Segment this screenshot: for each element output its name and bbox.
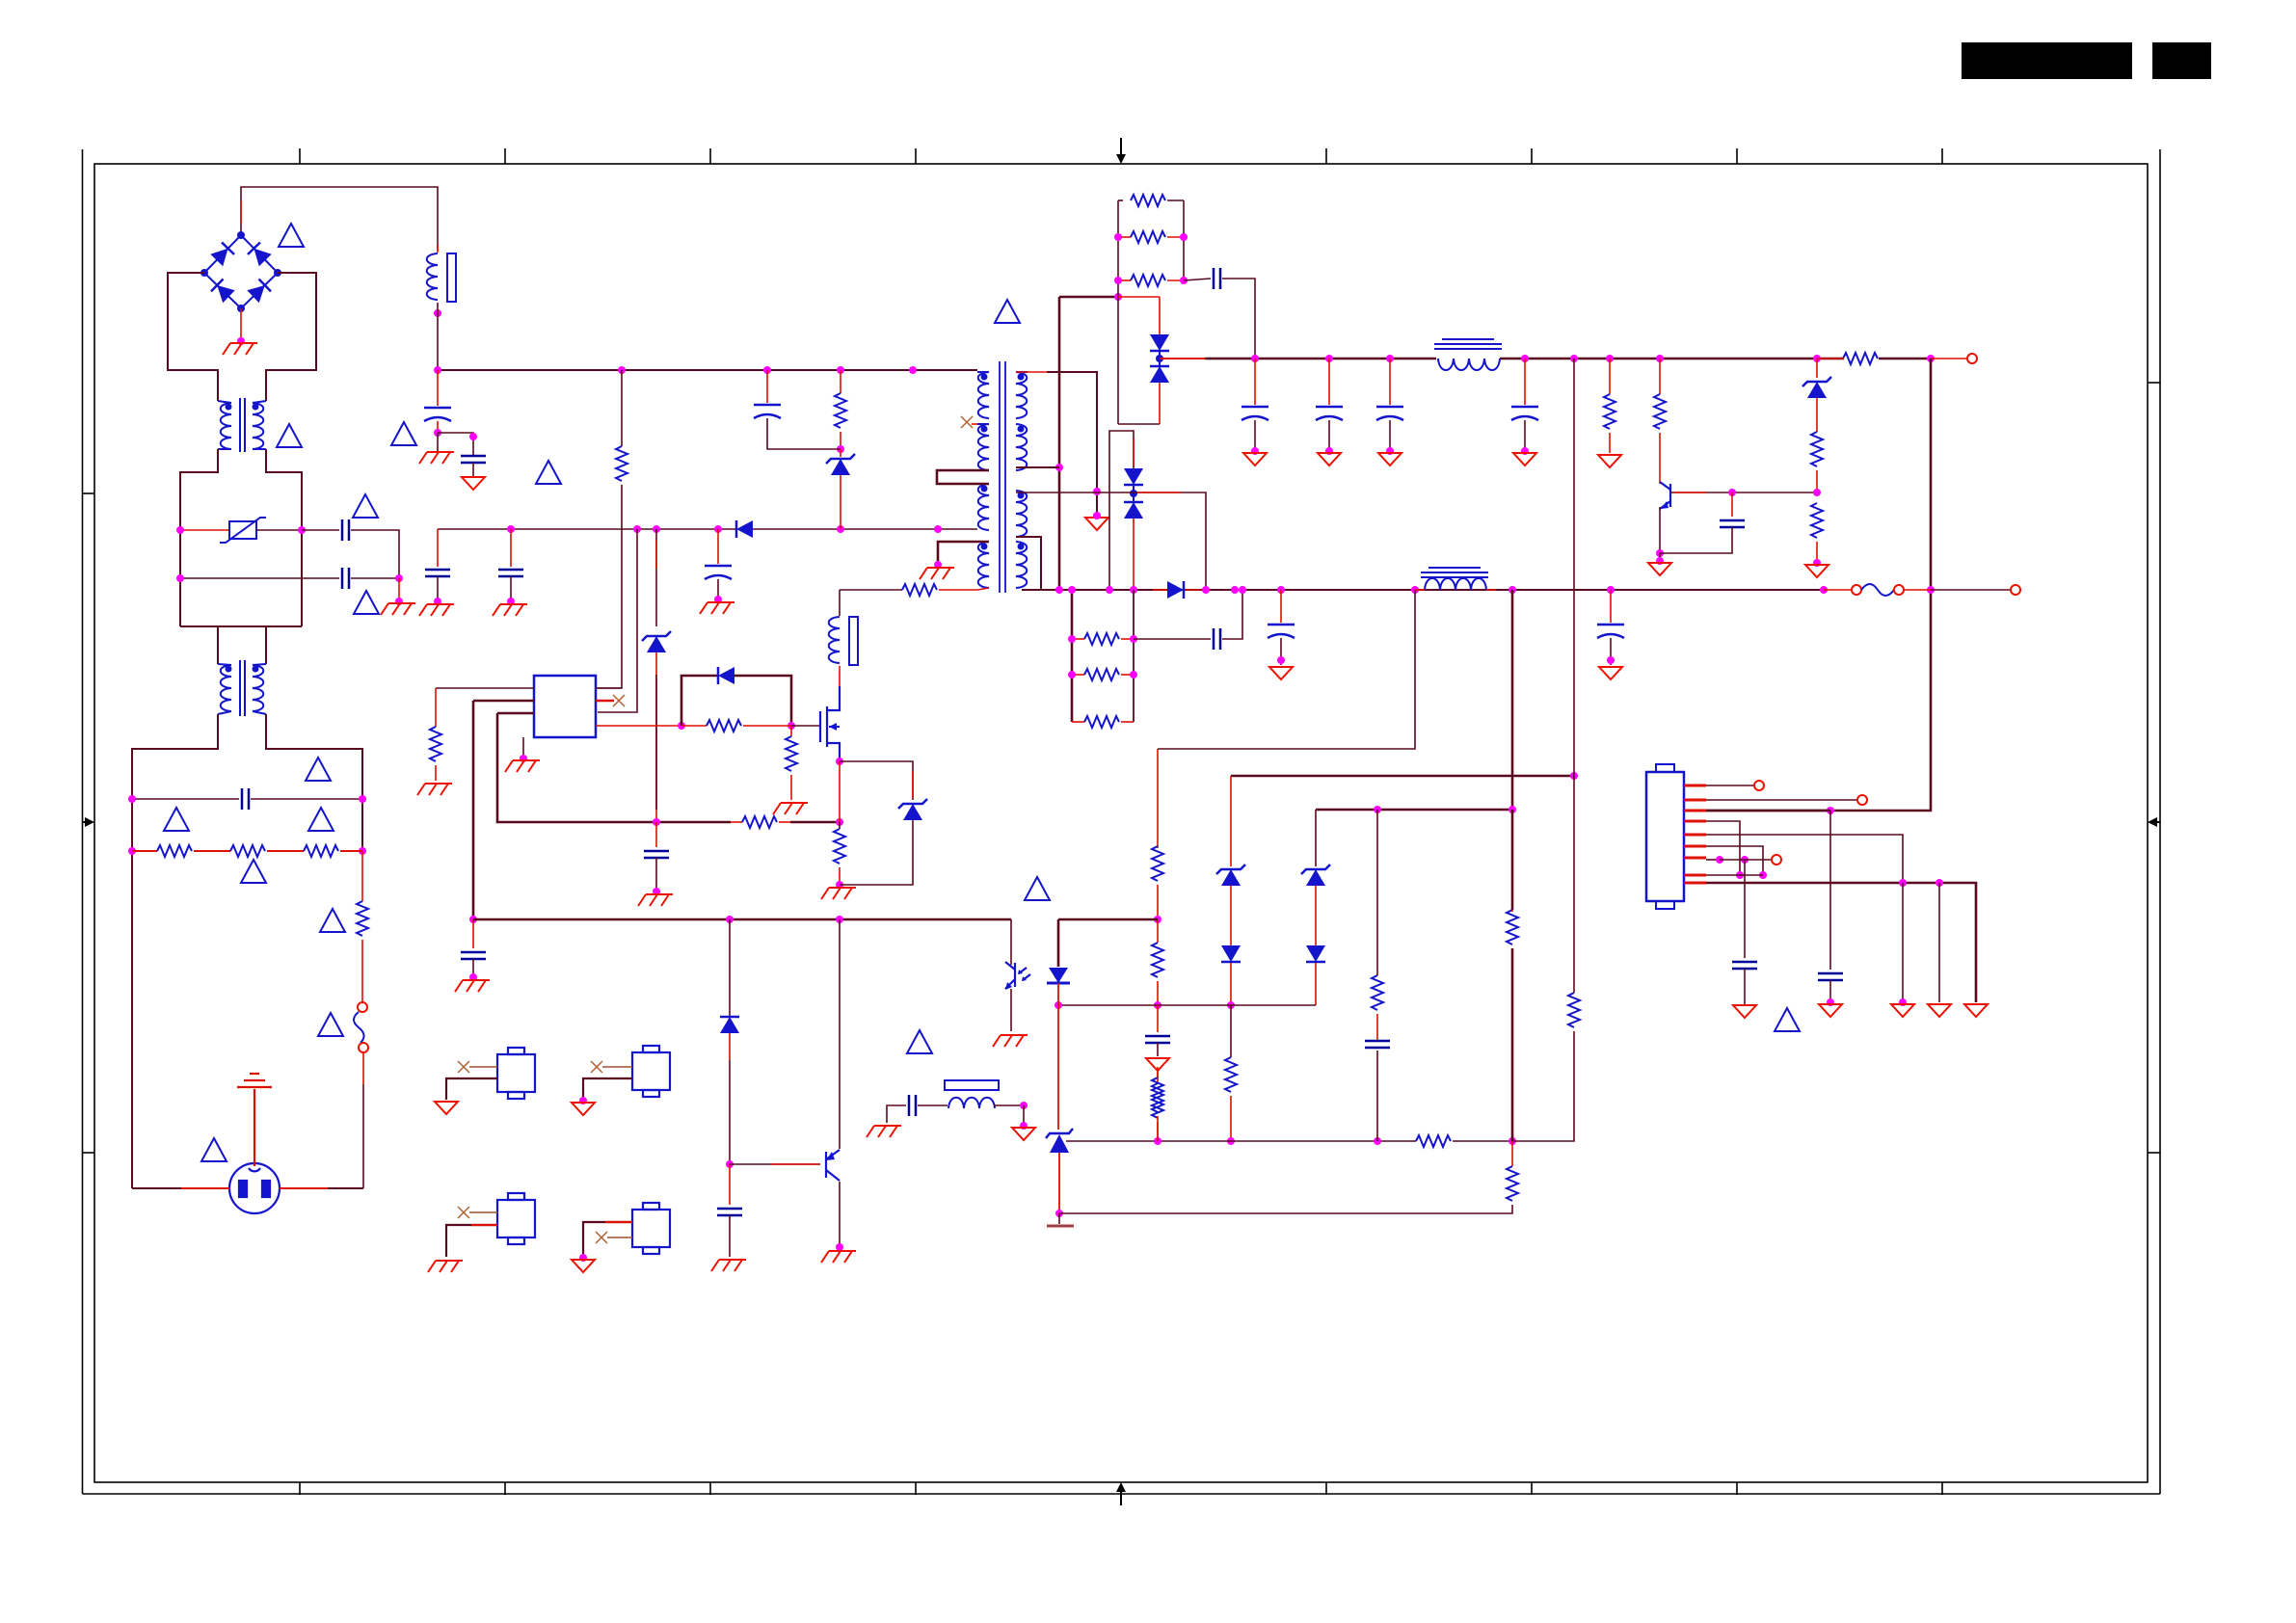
resistor R-row883-2 [230,845,265,857]
ground chassis below bridge [237,337,245,345]
wire x1138 vertical from S1 [1047,372,1097,514]
varistor RV1 [220,518,266,543]
warning triangle near T1 [277,424,302,447]
sense line y840 [1316,809,1512,811]
cap C on rail2 x1671 [1610,590,1612,623]
corner up x1633 [1512,1031,1574,1141]
connector J1 body [1646,772,1684,901]
EMI bead filter mid-bottom [867,1126,901,1137]
outer border right [2159,149,2161,1494]
shunt regulator zener (big) [1046,1129,1074,1226]
snubber ladder upper [1114,195,1255,424]
TVS pair 1 [1118,297,1169,424]
resistor x1722 to transistor [1659,359,1661,394]
gate pulldown resistor [790,726,792,736]
centre arrow top [1116,138,1126,164]
primary aux rail y954 [473,918,1011,921]
cap C filter1 x1302 [1254,359,1256,405]
wire bridge bottom to ground [240,308,242,341]
resistor x1201 upper [1157,1116,1159,1141]
emitter down to ground [839,1182,841,1247]
zener clamp loop right of source [840,761,913,800]
resistor ladder1 row3 [1118,279,1131,281]
jumper box JP3 [497,1193,535,1244]
transformer T2 common-mode choke [218,660,266,716]
capacitor snubber1 [1214,268,1220,289]
resistor ladder1 row1 [1131,195,1165,206]
IC U1 PWM controller [534,676,596,737]
capacitor CY row829 [242,788,249,810]
tap wire from winding [1097,492,1134,493]
transistor Q3 [826,1150,840,1181]
wire ladder2 to series cap [1134,638,1211,640]
gate resistor R [681,725,707,727]
wire T2 right to lower loop [266,714,362,851]
warning triangle right of MOSFET [995,300,1020,323]
long vertical x1633 rail1 to feedback [1573,359,1575,776]
x marker NC pin [972,423,977,425]
resistor ladder2 row2 [1072,674,1084,676]
centre arrow right [2148,817,2160,827]
aux diode column x757 [729,919,731,1016]
pin7 wire with cap [1706,859,1720,861]
TVS pair 2 [1097,431,1206,590]
capacitor CY4 x530 below row [510,529,512,567]
base cap branch [1728,489,1736,496]
column x1365: zener + diode [1315,810,1317,866]
ground drop x2012 [1938,883,1940,1002]
varistor row wire [180,529,229,531]
resistor divider x872 from railA [840,370,841,393]
cap drop x1899 [1829,811,1831,970]
vertical x656 row to IC [598,529,637,712]
pin6 wire down [1706,846,1763,875]
winding 4 bottom pin to rail2 [977,588,989,590]
capacitor C bulk on x454 [437,370,439,406]
resistor R-row883-1 [157,845,192,857]
wire bridge left leg [168,273,218,401]
cap C on rail2 x1329 [1280,590,1282,623]
cap C filter2 x1379 [1328,359,1330,405]
jumper box JP2 [632,1046,670,1097]
snubber clamp loop [681,676,717,726]
pin8 wire y908 [1706,874,1763,876]
tap wire junction to rail2 after diode [1134,492,1206,590]
warning triangle near switch [318,1013,343,1036]
fuse on rail2 [1824,589,1852,591]
top ticks [299,148,301,164]
ferrite bead with core [945,1080,999,1108]
resistor drain row y612 [840,589,902,591]
warning triangle below CX2 [354,591,379,614]
collector up to rail954 [839,919,841,1149]
feedback line y805 [1231,775,1574,778]
wire T1 to filter block left [180,449,218,626]
cap C filter3 x1442 [1389,359,1391,405]
reference line y1184 [1066,1140,1416,1142]
warning triangles near rows [164,808,189,831]
resistor ladder2 row3 [1072,721,1084,723]
node dots of bridge [237,231,245,239]
resistor x1569 below ref line [1511,1141,1513,1166]
wire T1 to filter block right [266,449,302,626]
redaction box large [1962,42,2132,79]
resistor R-row883-3 [304,845,338,857]
ground drop x1974 [1902,883,1904,1002]
pin9 wire y916 heavy [1706,883,1976,1002]
resistor + cap x1429 [1376,1051,1378,1141]
inductor L2 with core, on x454 [437,245,439,253]
opto LED [1057,919,1060,967]
transformer T1 common-mode choke [218,398,266,452]
T3 secondary winding 2 [1016,424,1027,470]
zener Z x872 [840,449,841,457]
net line y1043 [1058,1004,1316,1006]
pin5 wire y866 [1706,835,1903,883]
resistor to gnd on pin A [435,688,437,727]
IC bottom pin to ground [522,737,524,758]
jog between primary 2 and 3 [937,470,989,484]
warning triangle near bulk cap [391,422,416,445]
cap below x757 [729,1164,731,1205]
wire to series cap [1184,279,1211,280]
outer border bottom [83,1493,2161,1495]
redaction box small [2152,42,2211,79]
vertical x681 row-zener-junction [655,529,657,626]
warning triangle mid [536,461,561,484]
base wire to Q3 [730,1163,820,1165]
wire filter bottom bar [180,625,302,627]
zener chain x1885 [1816,359,1818,378]
aux row y549 [438,528,735,530]
rail A primary top y384 [438,369,977,371]
rectifier diode on rail2 pointing right [1167,581,1184,599]
wire plug right [280,1187,363,1189]
wire down to rail A [437,303,439,370]
warning triangle near bridge [279,224,304,247]
wire bridge right leg [266,273,316,401]
rail1 +V output y372 [1160,358,1205,359]
series resistor to +V terminal [1843,353,1878,364]
pin3 wire y841 handled by heavy vertical [1706,810,1830,812]
wire CX1 to corner down [351,530,399,578]
diode D clamp pointing left [718,667,734,684]
centre arrow bottom [1116,1482,1126,1505]
wire X-cap row1 [302,529,339,531]
jumper box JP4 [632,1203,670,1254]
current sense line y853 [497,713,731,822]
optocoupler U2 [993,919,1070,1130]
+V output terminal [1931,358,1967,359]
warning triangle near opto [1025,877,1050,900]
resistor ladder1 row2 [1118,236,1131,238]
secondary pin S1 stub [1016,371,1059,373]
interlock switch S1 [358,1002,367,1012]
inner border [94,164,2148,1482]
heavy vertical to connector feed [1684,359,1931,811]
T3 primary winding 1 [977,372,989,418]
resistor x1276 lower [1225,1057,1237,1092]
warning triangle near T2 [306,758,331,781]
wire top link to snubber node [1059,296,1118,299]
ground chassis of X-caps [398,578,400,601]
resistor bleed x1670 [1609,359,1611,394]
pin stubs [1684,785,1706,883]
wire row y883 with series resistors [128,847,136,855]
cap drop x1810 [1744,860,1746,958]
return loop y777 [1158,590,1415,749]
capacitor small to arrow ground [438,433,473,455]
T3 secondary winding 4 [1016,542,1027,588]
IC right pins [596,687,622,689]
warning triangle above CX1 [353,494,378,518]
thick vertical x1569 resistor [1511,810,1514,910]
transistor Q2 PNP [1660,482,1670,509]
capacitor CX2 [342,568,349,589]
resistor R-thermistor vertical [361,851,363,901]
capacitor below x491 to chassis gnd [472,919,474,948]
resistor ladder2 row1 [1072,638,1084,640]
wire stubs into T2 [217,626,219,664]
wire T2 to lower loop [132,714,218,1188]
cap + arrow + resistor below x1201 [1157,1005,1159,1032]
cap C filter4 x1582 [1524,359,1526,405]
arrow ground x1138 [1085,518,1108,530]
wire row2 [180,577,339,579]
capacitor CY5 x745 [717,529,719,564]
bottom ticks [299,1482,301,1495]
column x1201: divider from return loop [1157,749,1159,848]
secondary S3 bottom jog [1016,537,1041,590]
resistor in line y1184 [1416,1135,1451,1147]
centre arrow left [83,817,94,827]
warning triangle near connector [1775,1008,1800,1031]
capacitor C x796 parallel [766,370,768,403]
wire varistor to right rail [256,529,302,531]
feedback vertical x491 down [472,701,475,919]
filter choke L3 on rail1 [1434,339,1502,370]
wire loop left vertical upper part [131,749,133,845]
jumper box JP1 [497,1048,535,1099]
sense resistor x871 [839,822,841,829]
pin2 wire to terminal [1706,799,1857,801]
column x1277: zener + diode [1230,776,1232,866]
source node loop [836,758,843,765]
long vertical x1569 rail2 down [1511,590,1514,810]
wire x1099 vertical [1058,297,1061,590]
wire row y829 [132,798,239,800]
warning triangle below row877 [320,909,345,932]
diode D aux row pointing left [736,520,753,538]
rail2 to -V terminal [1931,589,2011,591]
ground chassis below bulk cap [437,433,439,451]
winding 4 top pin to chassis ground [938,542,989,564]
base wire right [1670,492,1817,493]
pin1 wire to terminal [1706,785,1754,786]
wire plug left [132,1187,229,1189]
T3 primary winding 4 [978,542,989,588]
emitter to ground [1659,507,1661,553]
IC left pin wires [436,687,534,689]
outer border left [82,149,84,1494]
warning triangle near bead [907,1030,932,1053]
T3 secondary winding 3 [1016,491,1027,537]
vertical x643 railA to IC [621,370,623,446]
capacitor on x681 below y853 [655,822,657,847]
wire AC top run [241,187,438,251]
warning triangle near plug [201,1138,227,1161]
capacitor CX1 [342,519,349,541]
secondary pin S2 stub [1016,466,1059,468]
side ticks [83,492,95,494]
snubber ladder lower [1068,586,1246,728]
drain line with choke [839,590,841,616]
wire CX2 to junction [351,577,399,579]
wire red stub at bridge top [240,200,242,224]
T3 primary winding 2 [977,424,989,470]
tap line y511 [1016,492,1097,493]
AC plug P1 [229,1163,280,1213]
rail2 (lower output) y612 [1022,589,1824,591]
transformer T3 core [999,361,1001,593]
earth ground above plug [237,1074,272,1166]
T3 secondary winding 1 [1016,372,1028,418]
capacitor CY3 x454 below row [437,529,439,567]
filter choke L4 on rail2 [1421,568,1488,590]
resistor x1633 [1568,993,1580,1027]
pin4 wire down [1706,821,1740,875]
bridge rectifier D1 [204,235,278,308]
MOSFET Q1 [820,686,840,761]
T3 primary winding 3 [978,484,989,530]
zener Z x681 [642,631,671,652]
